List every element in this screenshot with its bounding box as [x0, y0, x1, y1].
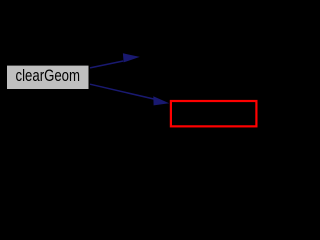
svg-text:clearGeom: clearGeom: [16, 66, 81, 85]
